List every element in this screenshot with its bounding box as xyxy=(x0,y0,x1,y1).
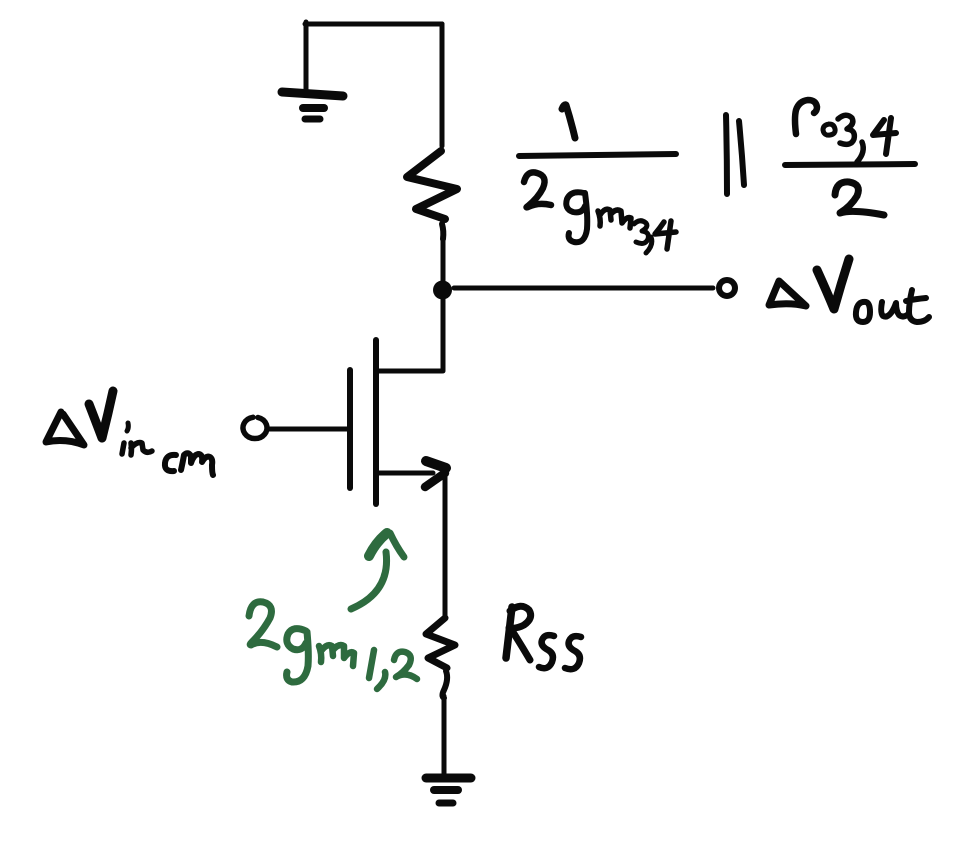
label: delta V out xyxy=(769,259,929,322)
terminal: output port circle xyxy=(719,280,735,296)
wire: gate horizontal xyxy=(267,427,347,432)
parallel-bars symbol xyxy=(726,115,744,194)
wire: VDD top horizontal xyxy=(305,22,442,27)
wire: drain horizontal xyxy=(376,369,442,374)
ground GND (tail current source) xyxy=(426,778,471,803)
wire: output horizontal xyxy=(454,286,713,291)
terminal: input port circle xyxy=(243,417,267,438)
ground GND (top supply) xyxy=(282,92,343,119)
label: fraction ro3,4 / 2 xyxy=(785,100,915,215)
wire: RSS to ground xyxy=(442,696,447,775)
wire: node down to drain xyxy=(441,292,446,371)
wire: vertical from top rail to load resistor xyxy=(440,24,445,146)
label: fraction 1 / (2 gm3,4) xyxy=(519,105,676,253)
wire: source down to RSS xyxy=(443,473,448,617)
wire: left vertical down to ground xyxy=(304,22,309,90)
node: output junction dot xyxy=(433,281,452,300)
label: delta V in cm xyxy=(46,391,213,475)
resistor RSS squiggle xyxy=(426,618,455,698)
label: RSS xyxy=(506,606,581,669)
wire: resistor to output node xyxy=(441,237,446,284)
current arrow (green) pointing up to source node xyxy=(351,533,404,609)
wire: source horizontal with arrow xyxy=(376,461,446,487)
transistor M1 (NMOS) xyxy=(350,340,376,504)
resistor: load (1/2gm3,4 || ro3,4/2) squiggle xyxy=(407,151,457,239)
label: 2gm1,2 (green) xyxy=(249,602,417,689)
